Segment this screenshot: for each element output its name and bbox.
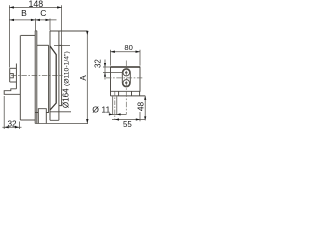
bottom hole bbox=[123, 80, 130, 87]
cone edge top diagonal bbox=[50, 46, 56, 110]
arrows C bbox=[35, 19, 40, 21]
arrows 80 bbox=[110, 51, 115, 53]
centerline bbox=[11, 75, 63, 77]
C-body top edge bbox=[37, 44, 49, 46]
ext A bottom bbox=[35, 123, 88, 125]
shaft top edge bbox=[10, 67, 17, 69]
right view v centerline holes bbox=[125, 61, 127, 115]
ext 32 left bbox=[3, 96, 5, 129]
svg-text:Ø 11: Ø 11 bbox=[92, 105, 110, 115]
dim 32 vert line bbox=[104, 60, 106, 80]
dim 148 ext left bbox=[8, 5, 10, 67]
svg-text:Ø164 (Ø110-1/4"): Ø164 (Ø110-1/4") bbox=[62, 51, 71, 108]
right view: mounting block bbox=[111, 67, 146, 96]
stadium slot bbox=[122, 69, 130, 87]
Ø110 ext top bbox=[54, 44, 70, 46]
dimensions bbox=[2, 5, 88, 129]
shaft bottom edge bbox=[10, 81, 17, 83]
dim 32 right: ext top bbox=[103, 66, 110, 68]
flange disc bbox=[49, 31, 88, 120]
ext B/C mid bbox=[34, 19, 36, 31]
top hole bbox=[123, 69, 130, 76]
svg-text:48: 48 bbox=[135, 102, 145, 112]
dim 148 ext right bbox=[61, 5, 63, 45]
body bottom edge bbox=[20, 119, 35, 121]
dim 32 left line bbox=[2, 126, 21, 128]
ext 32 right bbox=[18, 122, 20, 130]
dim 48 line bbox=[144, 96, 146, 121]
arrows A bbox=[86, 31, 88, 35]
ext 80 left bbox=[109, 50, 111, 66]
base feet bbox=[111, 91, 140, 96]
shaft groove box bbox=[10, 74, 14, 78]
pilot spigot bbox=[59, 45, 62, 105]
arrow 48 top/bottom bbox=[144, 96, 146, 100]
arrows 32 left bbox=[4, 126, 9, 128]
block outline bbox=[111, 67, 141, 91]
dim Ø11 exts bbox=[113, 97, 117, 116]
dim B C line bbox=[10, 19, 57, 21]
right view h centerline bbox=[106, 77, 142, 79]
svg-text:32: 32 bbox=[7, 119, 17, 128]
C-body bottom edge stubs bbox=[35, 111, 71, 114]
shaft axis dashed bbox=[114, 92, 116, 120]
shaft end face bbox=[9, 68, 11, 82]
dim 55 line bbox=[112, 119, 145, 121]
svg-text:B: B bbox=[21, 8, 27, 18]
dim 148 line bbox=[9, 6, 61, 8]
thin flange plate bbox=[35, 31, 37, 124]
bottom-left bracket bbox=[4, 89, 20, 95]
svg-text:C: C bbox=[40, 8, 46, 18]
svg-text:32: 32 bbox=[94, 59, 103, 68]
arrows Ø11 outside bbox=[109, 113, 113, 115]
arrows 148 bbox=[9, 6, 14, 8]
svg-text:A: A bbox=[79, 75, 88, 81]
ext hole center bbox=[103, 72, 123, 74]
dim A line bbox=[86, 31, 88, 124]
arrows B bbox=[10, 19, 15, 21]
ext 80 right bbox=[139, 50, 141, 66]
body top edge bbox=[21, 34, 36, 36]
svg-text:80: 80 bbox=[124, 43, 132, 52]
foot tower bbox=[38, 109, 46, 124]
end cover face bbox=[15, 64, 17, 89]
base bottom line bbox=[111, 95, 146, 97]
arrows 55 bbox=[115, 118, 119, 120]
arrows 32 right outside bbox=[104, 63, 106, 67]
block top edge thick bbox=[111, 66, 141, 68]
ext 55 right bbox=[139, 112, 141, 121]
body left face bbox=[19, 35, 21, 120]
dim Ø11 line bbox=[109, 113, 127, 115]
svg-text:55: 55 bbox=[123, 120, 132, 129]
dim 80 line bbox=[110, 51, 140, 53]
ext C right bbox=[49, 19, 51, 31]
